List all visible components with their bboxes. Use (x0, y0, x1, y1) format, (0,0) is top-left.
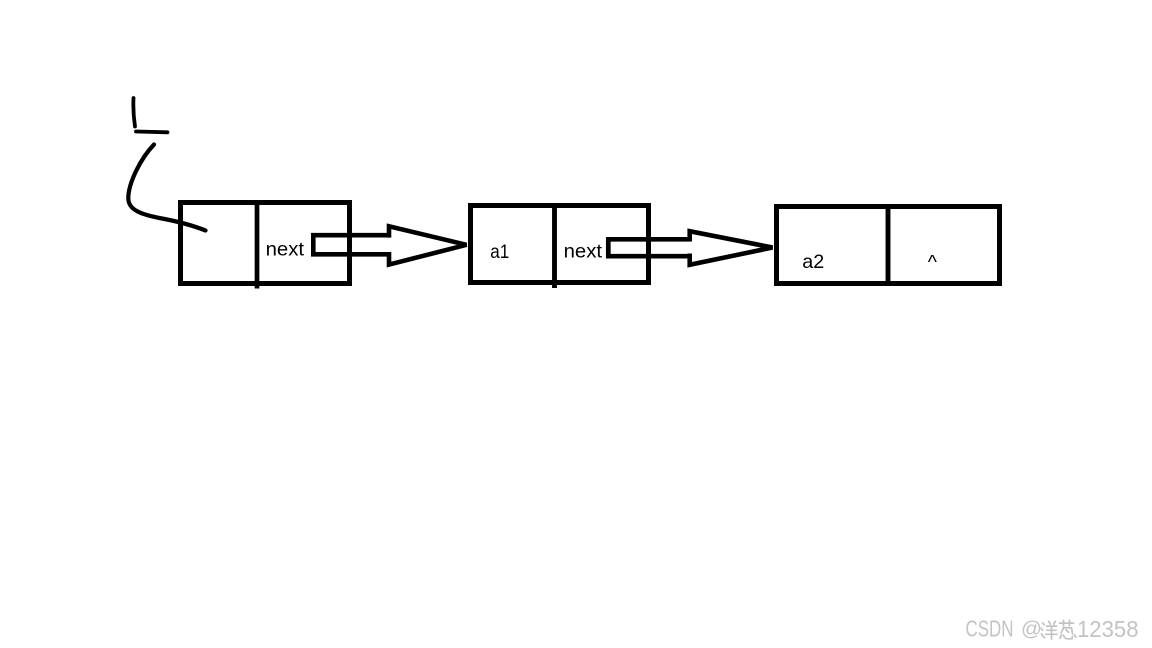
watermark CSDN @洋葱12358 (966, 616, 1139, 642)
block arrow 2 tail (from box 2 next field) (608, 239, 690, 256)
watermark CJK glyph 洋 (hand approximation) (1041, 621, 1057, 639)
svg-text:^: ^ (928, 251, 938, 273)
svg-text:next: next (266, 239, 305, 261)
node box 3 (a2 node) (777, 204, 1000, 286)
block arrow 1 tail (from box 1 next field) (313, 235, 389, 254)
svg-text:12358: 12358 (1077, 616, 1139, 642)
svg-text:a2: a2 (802, 251, 824, 273)
svg-text:CSDN: CSDN (966, 616, 1014, 642)
watermark CJK glyph 葱 (hand approximation) (1060, 620, 1076, 639)
hand-drawn pointer curve from L to head node (128, 145, 205, 231)
svg-text:@: @ (1021, 617, 1042, 640)
block arrow 2 head (points to a2 node) (690, 231, 773, 265)
node box 2 (a1 node) (471, 203, 649, 288)
svg-text:a1: a1 (490, 241, 509, 263)
svg-text:next: next (564, 241, 603, 263)
block arrow 1 head (points to a1 node) (389, 226, 467, 264)
node box 1 (head node) (181, 202, 350, 289)
hand-drawn letter L (list head label) (133, 98, 167, 132)
